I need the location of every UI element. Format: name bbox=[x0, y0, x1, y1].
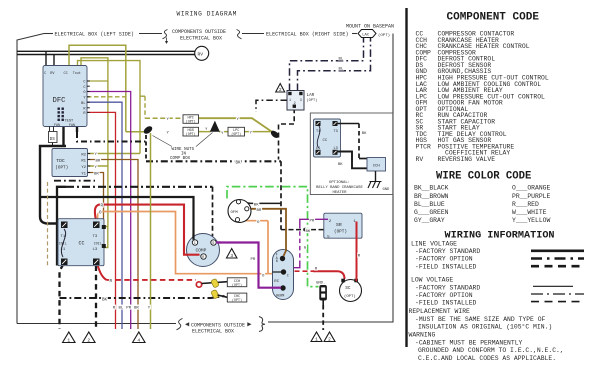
svg-text:BL: BL bbox=[119, 307, 124, 311]
line voltage legend samples bbox=[531, 251, 584, 266]
bottom border left part bbox=[17, 323, 176, 325]
svg-text:COMPONENT CODE: COMPONENT CODE bbox=[447, 12, 540, 24]
svg-text:BR: BR bbox=[134, 307, 139, 311]
svg-text:-FACTORY STANDARD: -FACTORY STANDARD bbox=[415, 285, 480, 292]
svg-text:3: 3 bbox=[230, 253, 233, 259]
svg-text:-MUST BE THE SAME SIZE AND TYP: -MUST BE THE SAME SIZE AND TYPE OF bbox=[415, 316, 546, 323]
wire DFC R red + bundle R bbox=[87, 112, 116, 329]
svg-text:LAR: LAR bbox=[307, 93, 315, 98]
top arrow down bbox=[166, 38, 168, 42]
SR start relay box bbox=[324, 213, 362, 238]
svg-text:L3: L3 bbox=[93, 248, 98, 252]
olive coil bracket bbox=[104, 227, 108, 248]
panel divider line bbox=[405, 8, 407, 347]
red wire nut curl bbox=[196, 282, 201, 287]
svg-text:GND.: GND. bbox=[316, 281, 325, 285]
svg-text:BR: BR bbox=[257, 209, 262, 213]
leader lines wire nuts bbox=[153, 133, 213, 147]
svg-text:(OPT): (OPT) bbox=[344, 294, 356, 299]
top border segments bbox=[44, 33, 53, 35]
COMP wire overlays bbox=[186, 254, 200, 256]
svg-text:BR: BR bbox=[96, 159, 101, 163]
wire BK dash-dot y186.8 bbox=[66, 186, 213, 188]
yellow wire nut 1 bbox=[211, 278, 220, 288]
warning triangle 2 top bbox=[276, 84, 285, 93]
CC compressor contactor box bbox=[58, 219, 104, 266]
svg-text:MOUNT ON BASEPAN: MOUNT ON BASEPAN bbox=[346, 24, 394, 30]
svg-text:(OPT): (OPT) bbox=[186, 120, 196, 124]
RC run capacitor bbox=[273, 250, 294, 300]
LAR low ambient relay box bbox=[287, 91, 304, 111]
wire nut blob row1 end bbox=[269, 129, 280, 139]
wire DFC CC pin olive bbox=[69, 45, 126, 132]
CC2 contactor box bbox=[314, 119, 341, 157]
svg-text:BR: BR bbox=[94, 172, 99, 176]
svg-text:BK: BK bbox=[236, 162, 242, 166]
wire BK line A dash-dot bbox=[76, 127, 78, 133]
component code list bbox=[416, 31, 549, 163]
DFC defrost control box bbox=[43, 66, 87, 127]
svg-text:Y2: Y2 bbox=[81, 166, 86, 170]
svg-text:(OPT): (OPT) bbox=[232, 283, 242, 287]
LAC hexagon bbox=[358, 30, 376, 38]
black diag to CHC bbox=[218, 295, 228, 297]
bottom brace bbox=[259, 317, 265, 332]
svg-text:2: 2 bbox=[328, 336, 331, 342]
svg-text:WIRE NUTS: WIRE NUTS bbox=[172, 148, 195, 152]
svg-text:LINE VOLTAGE: LINE VOLTAGE bbox=[411, 240, 457, 247]
svg-text:C: C bbox=[287, 275, 289, 279]
svg-text:HERM: HERM bbox=[276, 294, 284, 298]
svg-text:1: 1 bbox=[289, 99, 291, 103]
svg-text:COMPONENTS OUTSIDE: COMPONENTS OUTSIDE bbox=[191, 322, 245, 328]
wiring information text bbox=[409, 240, 564, 361]
svg-text:S: S bbox=[212, 242, 214, 246]
CHC box bbox=[227, 293, 247, 302]
svg-text:LOW VOLTAGE: LOW VOLTAGE bbox=[411, 277, 453, 284]
svg-text:ELECTRICAL BOX (LEFT SIDE): ELECTRICAL BOX (LEFT SIDE) bbox=[55, 31, 134, 37]
wire DFC Tout olive bbox=[78, 61, 141, 154]
svg-text:2: 2 bbox=[87, 337, 90, 343]
svg-text:COMP BOX: COMP BOX bbox=[170, 157, 191, 161]
wire orange OFM branch bbox=[242, 221, 269, 274]
svg-text:BL__BLUE: BL__BLUE bbox=[414, 201, 445, 208]
wire Y row2 segments bbox=[199, 131, 271, 133]
wire red SR 1 to SC bbox=[355, 222, 358, 282]
warning triangle 1 bottom-left bbox=[63, 332, 76, 343]
wire TDC R1 brown bundle BR bbox=[88, 160, 138, 330]
wire LAR pin2 dashed down bbox=[279, 108, 295, 159]
wire LAR left dash-dot bbox=[256, 100, 287, 112]
svg-text:CC: CC bbox=[64, 72, 68, 76]
warning triangle 4 bottom bbox=[133, 332, 146, 343]
wire BK vertical from wire nut bbox=[145, 135, 147, 160]
svg-text:-FACTORY OPTION: -FACTORY OPTION bbox=[415, 256, 473, 263]
svg-text:2: 2 bbox=[279, 87, 282, 93]
svg-text:C.E.C.AND LOCAL CODES AS APPLI: C.E.C.AND LOCAL CODES AS APPLICABLE. bbox=[418, 355, 556, 362]
svg-text:BK: BK bbox=[362, 132, 367, 136]
svg-text:ELECTRICAL BOX (RIGHT SIDE): ELECTRICAL BOX (RIGHT SIDE) bbox=[266, 31, 349, 37]
wire orange O line bbox=[98, 212, 273, 274]
wire BK vertical x281 bbox=[280, 161, 282, 229]
svg-text:-CABINET MUST BE PERMANENTLY: -CABINET MUST BE PERMANENTLY bbox=[415, 339, 523, 346]
wire labels bbox=[94, 151, 98, 156]
svg-text:COMPONENTS OUTSIDE: COMPONENTS OUTSIDE bbox=[172, 29, 226, 35]
svg-text:DS: DS bbox=[50, 138, 56, 142]
wire DFC Y dashed olive bbox=[87, 96, 126, 98]
svg-text:FAN: FAN bbox=[69, 123, 75, 127]
svg-text:-FACTORY OPTION: -FACTORY OPTION bbox=[415, 292, 473, 299]
svg-text:BL: BL bbox=[339, 67, 344, 71]
svg-text:(OPT): (OPT) bbox=[55, 165, 68, 170]
wire green G dash-dot bbox=[227, 187, 319, 287]
svg-text:PR: PR bbox=[126, 307, 131, 311]
wire red R line to CC T3 and COMP R bbox=[95, 205, 197, 255]
svg-text:DFC: DFC bbox=[53, 97, 67, 105]
top squiggle left bbox=[163, 30, 168, 39]
wire nut triangle bbox=[210, 121, 220, 132]
svg-text:BK: BK bbox=[102, 298, 108, 302]
svg-text:Y___YELLOW: Y___YELLOW bbox=[512, 217, 551, 224]
svg-text:OPTIONAL:: OPTIONAL: bbox=[329, 181, 350, 185]
wire DFC C1 olive bbox=[81, 58, 108, 227]
svg-text:FAN: FAN bbox=[54, 123, 60, 127]
svg-text:PR: PR bbox=[310, 219, 315, 223]
svg-text:TDC: TDC bbox=[56, 158, 65, 164]
wire red RC C to SC bbox=[287, 270, 314, 272]
svg-text:1: 1 bbox=[315, 336, 318, 342]
svg-text:WIRING INFORMATION: WIRING INFORMATION bbox=[445, 230, 555, 241]
CC coil pins right bbox=[102, 225, 106, 229]
svg-text:CCH: CCH bbox=[373, 164, 381, 168]
bottom label components outside electrical box bbox=[185, 322, 189, 326]
svg-text:T3: T3 bbox=[334, 130, 338, 134]
wire BK branch to OFM bbox=[241, 202, 281, 203]
svg-text:N: N bbox=[276, 259, 278, 263]
wire Y bundle down from nut bbox=[150, 133, 152, 329]
svg-text:1: 1 bbox=[67, 337, 70, 343]
wire Y row1 HPC bbox=[140, 95, 145, 97]
svg-text:SC: SC bbox=[345, 286, 351, 291]
wire BL dash-dot LAC 1 bbox=[290, 38, 364, 91]
svg-text:R1: R1 bbox=[81, 159, 86, 163]
LPC box bbox=[228, 127, 245, 136]
electrical box left border bbox=[17, 34, 44, 324]
RV reversing valve circle bbox=[195, 46, 209, 60]
svg-text:(OPT): (OPT) bbox=[378, 33, 390, 38]
wire red dashed y280 bbox=[107, 279, 197, 281]
svg-text:R: R bbox=[202, 256, 204, 260]
svg-text:BL: BL bbox=[81, 102, 85, 106]
svg-text:WARNING: WARNING bbox=[409, 331, 436, 338]
wire thin dashed tan x47.5 bbox=[47, 182, 49, 266]
svg-text:3: 3 bbox=[300, 99, 302, 103]
svg-text:T3: T3 bbox=[93, 235, 98, 239]
DFC test pins bbox=[58, 108, 60, 110]
svg-text:(OPT): (OPT) bbox=[307, 98, 318, 103]
wire black y197 to COMP C bbox=[40, 197, 194, 240]
svg-text:C: C bbox=[44, 72, 46, 76]
svg-text:PR: PR bbox=[251, 258, 256, 262]
CC contact curve bbox=[61, 229, 65, 257]
svg-text:2: 2 bbox=[294, 102, 296, 106]
svg-text:LAC: LAC bbox=[362, 33, 370, 37]
svg-text:G___GREEN: G___GREEN bbox=[414, 209, 449, 216]
CCH2 crankcase heater box bbox=[367, 158, 386, 172]
low voltage legend samples bbox=[531, 286, 584, 301]
OFM outdoor fan motor circle bbox=[228, 200, 251, 223]
wire TDC Y2 olive to coil bbox=[88, 165, 108, 167]
svg-text:IN: IN bbox=[181, 152, 187, 156]
svg-text:(OPT): (OPT) bbox=[334, 230, 347, 235]
TDC time delay control box bbox=[52, 149, 88, 177]
svg-text:RC: RC bbox=[274, 280, 279, 284]
wire BL dash-dot LAC 2 bbox=[298, 38, 371, 91]
right border bbox=[268, 34, 393, 323]
optional belly band box bbox=[310, 113, 393, 195]
wire DFC BL blue bbox=[87, 102, 122, 329]
wire TDC R2 row olive bbox=[88, 153, 140, 155]
svg-text:COMP: COMP bbox=[196, 248, 207, 254]
RC pin entry overlays bbox=[284, 249, 287, 256]
svg-text:SR: SR bbox=[336, 222, 342, 228]
wire RV upper black bbox=[17, 50, 195, 52]
wire nut row2 olive bbox=[126, 131, 145, 133]
svg-text:W___WHITE: W___WHITE bbox=[512, 209, 547, 216]
svg-text:ELECTRICAL BOX: ELECTRICAL BOX bbox=[180, 36, 222, 42]
svg-text:OFM: OFM bbox=[231, 211, 239, 215]
DS defrost sensor box bbox=[49, 127, 51, 132]
svg-text:C: C bbox=[83, 81, 85, 85]
wire black DFC FAN1 to CC T1 bbox=[62, 127, 64, 147]
svg-text:R___RED: R___RED bbox=[512, 201, 539, 208]
GND right block bbox=[319, 285, 327, 301]
wire TDC Y1 brown bbox=[88, 173, 104, 223]
wire brown OFM to RC FAN bbox=[249, 209, 286, 256]
svg-text:Tout: Tout bbox=[73, 71, 81, 75]
wire DFC O purple bbox=[87, 92, 131, 330]
CC2 T3 wire to CCH2 bbox=[337, 123, 359, 125]
svg-text:(OPT): (OPT) bbox=[186, 132, 196, 136]
svg-text:BK: BK bbox=[306, 230, 311, 234]
wire CC L3 field dashed bbox=[95, 266, 97, 331]
svg-text:CC: CC bbox=[323, 139, 328, 143]
wire purple PR SR run bbox=[300, 219, 324, 224]
svg-text:WIRE COLOR CODE: WIRE COLOR CODE bbox=[436, 171, 531, 183]
warning triangle 3 bbox=[226, 249, 237, 259]
wire BK line B dash-dot bbox=[146, 160, 281, 162]
wire CC L1 field dashed bbox=[60, 264, 64, 329]
wire BK y298 dash-dot bbox=[60, 296, 225, 298]
svg-text:GND: GND bbox=[383, 188, 391, 192]
svg-text:RV: RV bbox=[416, 156, 424, 163]
svg-text:R2: R2 bbox=[81, 153, 86, 157]
svg-text:RV: RV bbox=[198, 51, 204, 57]
COMP compressor circle bbox=[187, 234, 220, 267]
warning triangle 2 bottom-left bbox=[83, 332, 96, 343]
svg-text:INSULATION AS ORIGINAL (105°C: INSULATION AS ORIGINAL (105°C MIN.) bbox=[418, 323, 552, 331]
svg-text:WIRING DIAGRAM: WIRING DIAGRAM bbox=[177, 11, 237, 18]
svg-text:C: C bbox=[194, 242, 196, 246]
svg-text:PR__PURPLE: PR__PURPLE bbox=[512, 193, 551, 200]
svg-text:O: O bbox=[83, 91, 85, 95]
svg-text:CC: CC bbox=[79, 241, 85, 247]
yellow wire nut 2 bbox=[211, 289, 220, 299]
svg-text:BL: BL bbox=[339, 57, 344, 61]
wire red CC L3 curve bbox=[98, 265, 107, 280]
wire nut blob row2 start bbox=[142, 125, 153, 136]
wire RV lower black bbox=[17, 54, 195, 56]
svg-text:REVERSING VALVE: REVERSING VALVE bbox=[438, 156, 496, 163]
svg-text:(OPT): (OPT) bbox=[231, 132, 241, 136]
svg-text:-FIELD INSTALLED: -FIELD INSTALLED bbox=[415, 300, 477, 307]
bundle labels bbox=[112, 305, 116, 310]
GND left symbol bbox=[375, 171, 377, 182]
svg-text:4: 4 bbox=[137, 337, 140, 343]
warning triangle 1 bottom-right bbox=[311, 332, 322, 342]
wire color code list bbox=[414, 185, 551, 224]
HGS box bbox=[183, 127, 199, 136]
warning triangle 2 bottom-right bbox=[324, 332, 335, 342]
wire purple COMP S to RC HERM bbox=[216, 243, 280, 288]
top squiggle right bbox=[237, 30, 242, 39]
bottom squiggle bbox=[177, 319, 183, 330]
svg-text:-FIELD INSTALLED: -FIELD INSTALLED bbox=[415, 263, 477, 270]
svg-text:O___ORANGE: O___ORANGE bbox=[512, 185, 551, 192]
CCH box bbox=[227, 278, 247, 287]
svg-text:COIL: COIL bbox=[94, 241, 102, 245]
CC2 L3 wire to CCH2 bbox=[337, 152, 367, 169]
wire black x57 down bbox=[57, 187, 66, 266]
wire TDC bottom dash-dot bbox=[54, 180, 95, 182]
svg-text:BK__BLACK: BK__BLACK bbox=[414, 185, 449, 192]
svg-text:PTCR: PTCR bbox=[416, 144, 432, 151]
svg-text:C: C bbox=[83, 86, 85, 90]
svg-text:BELLY BAND CRANKCASE: BELLY BAND CRANKCASE bbox=[316, 186, 363, 190]
svg-text:(OPT): (OPT) bbox=[232, 298, 242, 302]
black diag to CCH bbox=[202, 282, 228, 284]
HPC box bbox=[183, 115, 199, 124]
svg-text:REPLACEMENT WIRE: REPLACEMENT WIRE bbox=[409, 308, 471, 315]
svg-text:HEATER: HEATER bbox=[332, 191, 347, 195]
svg-text:GROUNDED AND CONFORM TO I.E.C.: GROUNDED AND CONFORM TO I.E.C.,N.E.C., bbox=[418, 347, 564, 354]
svg-text:BR__BROWN: BR__BROWN bbox=[414, 193, 449, 200]
SC start capacitor circle bbox=[340, 280, 362, 302]
svg-text:GY__GRAY: GY__GRAY bbox=[414, 217, 445, 224]
wire BK dashed to SR 5 bbox=[281, 229, 324, 231]
svg-text:BK: BK bbox=[338, 163, 343, 167]
svg-text:-FACTORY STANDARD: -FACTORY STANDARD bbox=[415, 248, 480, 255]
wire dashed x212.5 to COMP S bbox=[212, 187, 214, 236]
svg-text:Y1: Y1 bbox=[81, 172, 86, 176]
svg-text:ELECTRICAL BOX: ELECTRICAL BOX bbox=[192, 329, 234, 335]
